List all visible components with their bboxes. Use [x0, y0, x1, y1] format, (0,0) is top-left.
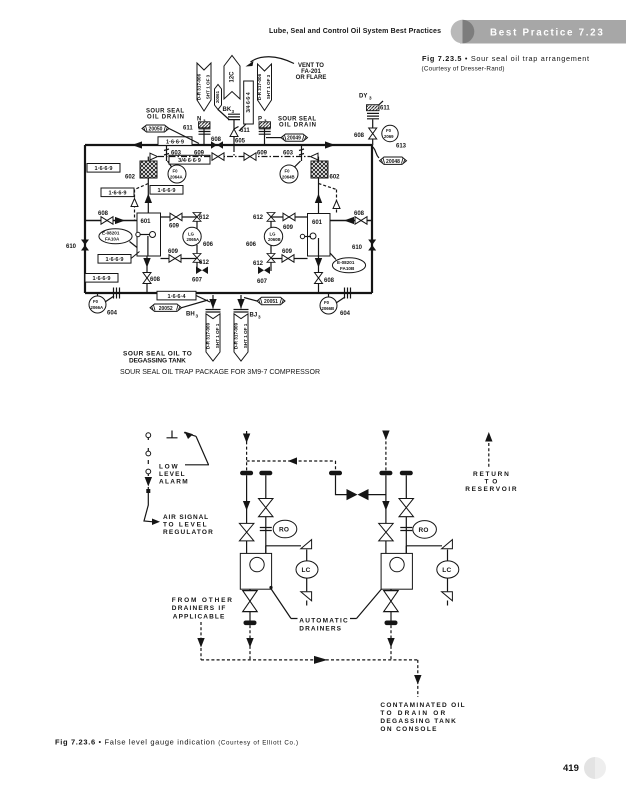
- svg-text:P: P: [258, 117, 262, 123]
- svg-text:609: 609: [283, 225, 294, 231]
- svg-text:607: 607: [257, 279, 268, 285]
- svg-text:RO: RO: [419, 527, 429, 534]
- svg-text:REGULATOR: REGULATOR: [163, 529, 213, 536]
- svg-text:1·6·6·4: 1·6·6·4: [167, 294, 186, 300]
- svg-text:3: 3: [232, 109, 235, 114]
- svg-text:LOW: LOW: [159, 464, 178, 471]
- svg-text:DRAINERS IF: DRAINERS IF: [172, 605, 226, 612]
- svg-text:611: 611: [380, 106, 390, 112]
- svg-text:ON CONSOLE: ON CONSOLE: [380, 726, 437, 733]
- svg-text:F0: F0: [93, 299, 99, 304]
- svg-text:LEVEL: LEVEL: [159, 471, 185, 478]
- svg-text:603: 603: [283, 151, 294, 157]
- svg-text:605: 605: [235, 139, 246, 145]
- svg-text:1·6·6·9: 1·6·6·9: [166, 140, 184, 146]
- svg-text:OR FLARE: OR FLARE: [296, 75, 327, 81]
- svg-text:3: 3: [203, 119, 206, 124]
- svg-text:609: 609: [168, 249, 179, 255]
- svg-text:609: 609: [169, 224, 180, 230]
- svg-text:D-R 317-006: D-R 317-006: [257, 73, 262, 100]
- svg-text:D-R 317-009: D-R 317-009: [234, 322, 239, 349]
- svg-text:BK: BK: [223, 107, 232, 113]
- svg-text:612: 612: [199, 260, 210, 266]
- svg-text:F0: F0: [285, 169, 291, 174]
- svg-text:2066B: 2066B: [322, 306, 335, 311]
- svg-text:AUTOMATIC: AUTOMATIC: [299, 618, 348, 625]
- svg-text:602: 602: [125, 175, 136, 181]
- svg-text:604: 604: [107, 311, 118, 317]
- svg-text:612: 612: [199, 215, 210, 221]
- svg-text:TO DRAIN OR: TO DRAIN OR: [380, 710, 445, 717]
- svg-text:608: 608: [150, 277, 161, 283]
- svg-text:603: 603: [171, 151, 182, 157]
- svg-text:LG: LG: [270, 232, 277, 237]
- svg-text:1·6·6·9: 1·6·6·9: [105, 257, 123, 263]
- svg-text:CONTAMINATED OIL: CONTAMINATED OIL: [380, 702, 464, 709]
- svg-text:606: 606: [203, 242, 214, 248]
- svg-text:613: 613: [396, 144, 407, 150]
- svg-text:601: 601: [141, 219, 152, 225]
- svg-text:BH: BH: [186, 312, 195, 318]
- svg-text:604: 604: [340, 311, 351, 317]
- svg-text:608: 608: [354, 133, 365, 139]
- svg-text:3: 3: [264, 119, 267, 124]
- svg-text:2060B: 2060B: [268, 237, 281, 242]
- svg-text:Fig 7.23.6 • False level gauge: Fig 7.23.6 • False level gauge indicatio…: [55, 738, 298, 747]
- svg-text:3/4·6·6·9: 3/4·6·6·9: [178, 158, 201, 164]
- svg-text:20048: 20048: [386, 159, 400, 165]
- svg-text:608: 608: [211, 137, 222, 143]
- svg-text:607: 607: [192, 278, 203, 284]
- svg-text:F0: F0: [173, 169, 179, 174]
- svg-text:2069: 2069: [384, 134, 394, 139]
- svg-text:20049: 20049: [287, 136, 301, 142]
- svg-text:N: N: [197, 117, 201, 123]
- svg-text:606: 606: [246, 242, 257, 248]
- svg-text:609: 609: [282, 249, 293, 255]
- svg-text:601: 601: [312, 220, 323, 226]
- svg-text:SOUR SEAL: SOUR SEAL: [278, 117, 316, 123]
- svg-text:Lube, Seal and Control Oil Sys: Lube, Seal and Control Oil System Best P…: [269, 28, 441, 35]
- svg-text:2065A: 2065A: [187, 237, 200, 242]
- svg-text:SHT 1 OF 1: SHT 1 OF 1: [215, 323, 220, 348]
- svg-text:SHT 1 OF 3: SHT 1 OF 3: [205, 74, 210, 99]
- svg-text:610: 610: [352, 245, 363, 251]
- svg-text:DRAINERS: DRAINERS: [299, 625, 341, 632]
- svg-text:Best Practice 7.23: Best Practice 7.23: [490, 28, 604, 39]
- svg-text:OIL DRAIN: OIL DRAIN: [279, 123, 316, 129]
- svg-text:FROM OTHER: FROM OTHER: [172, 597, 232, 604]
- svg-text:610: 610: [66, 244, 77, 250]
- svg-text:E-08201: E-08201: [102, 231, 120, 236]
- svg-text:2064A: 2064A: [170, 175, 183, 180]
- svg-text:RO: RO: [279, 527, 289, 534]
- svg-text:OIL DRAIN: OIL DRAIN: [147, 115, 184, 121]
- svg-text:602: 602: [330, 175, 341, 181]
- svg-text:(Courtesy of Dresser-Rand): (Courtesy of Dresser-Rand): [422, 66, 505, 73]
- svg-text:LC: LC: [442, 567, 451, 574]
- svg-text:20051: 20051: [264, 299, 278, 305]
- svg-text:SHT 1 OF 1: SHT 1 OF 1: [243, 323, 248, 348]
- svg-text:SOUR SEAL: SOUR SEAL: [146, 109, 184, 115]
- svg-text:608: 608: [354, 211, 365, 217]
- svg-text:LC: LC: [302, 567, 311, 574]
- svg-text:SOUR SEAL OIL TRAP PACKAGE FOR: SOUR SEAL OIL TRAP PACKAGE FOR 3M9-7 COM…: [120, 369, 320, 376]
- svg-text:20061: 20061: [215, 90, 220, 103]
- svg-text:3/4·6·6·4: 3/4·6·6·4: [246, 92, 252, 113]
- svg-text:609: 609: [194, 151, 205, 157]
- svg-text:20052: 20052: [159, 306, 173, 312]
- svg-text:608: 608: [98, 211, 109, 217]
- svg-text:FA10A: FA10A: [105, 237, 120, 242]
- svg-text:3: 3: [196, 314, 199, 319]
- svg-text:612: 612: [253, 261, 264, 267]
- svg-text:2066A: 2066A: [91, 305, 104, 310]
- svg-text:3: 3: [369, 96, 372, 101]
- svg-text:2064B: 2064B: [282, 175, 295, 180]
- svg-text:APPLICABLE: APPLICABLE: [173, 613, 225, 620]
- svg-text:AIR SIGNAL: AIR SIGNAL: [163, 514, 208, 521]
- svg-text:12C: 12C: [230, 71, 236, 83]
- svg-text:FA10B: FA10B: [340, 266, 355, 271]
- svg-text:611: 611: [183, 126, 193, 132]
- svg-text:1·6·6·9: 1·6·6·9: [94, 166, 112, 172]
- svg-text:609: 609: [257, 151, 268, 157]
- svg-text:DEGASSING TANK: DEGASSING TANK: [129, 358, 186, 365]
- svg-text:D-R 317-009: D-R 317-009: [206, 322, 211, 349]
- svg-text:F0: F0: [386, 128, 392, 133]
- svg-text:RESERVOIR: RESERVOIR: [465, 486, 517, 493]
- svg-text:LG: LG: [188, 232, 195, 237]
- svg-text:1·6·6·9: 1·6·6·9: [92, 276, 110, 282]
- svg-text:BJ: BJ: [250, 313, 258, 319]
- svg-text:20050: 20050: [149, 127, 163, 133]
- svg-text:1·6·6·9: 1·6·6·9: [157, 188, 175, 194]
- svg-text:3: 3: [258, 315, 261, 320]
- svg-text:F0: F0: [324, 300, 330, 305]
- svg-text:612: 612: [253, 215, 264, 221]
- svg-text:E-08201: E-08201: [337, 260, 355, 265]
- svg-text:ALARM: ALARM: [159, 478, 188, 485]
- svg-text:TO LEVEL: TO LEVEL: [163, 522, 207, 529]
- svg-text:SHT 1 OF 3: SHT 1 OF 3: [266, 74, 271, 99]
- svg-text:1·6·6·9: 1·6·6·9: [108, 191, 126, 197]
- svg-text:608: 608: [324, 278, 335, 284]
- svg-text:419: 419: [563, 763, 579, 774]
- svg-text:DY: DY: [359, 94, 367, 100]
- svg-text:Fig 7.23.5 • Sour seal oil tra: Fig 7.23.5 • Sour seal oil trap arrangem…: [422, 54, 589, 63]
- svg-text:D-R 317-006: D-R 317-006: [197, 73, 202, 100]
- svg-text:DEGASSING TANK: DEGASSING TANK: [380, 718, 456, 725]
- svg-text:SOUR SEAL OIL TO: SOUR SEAL OIL TO: [123, 351, 192, 358]
